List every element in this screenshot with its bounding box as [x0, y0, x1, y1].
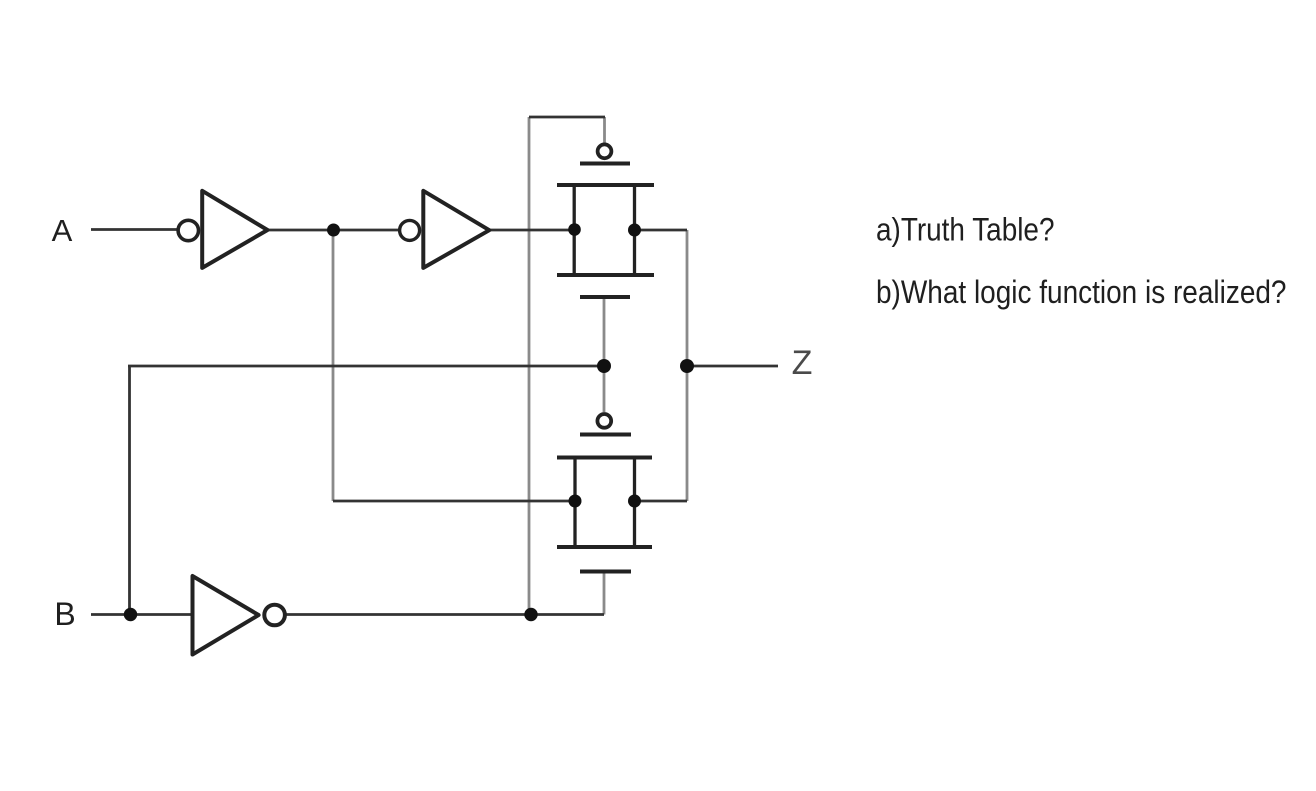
svg-text:B: B [54, 596, 75, 632]
svg-text:Z: Z [792, 344, 813, 382]
svg-text:A: A [52, 213, 73, 248]
svg-text:a)Truth Table?: a)Truth Table? [876, 212, 1055, 248]
svg-text:b)What logic function is reali: b)What logic function is realized? [876, 274, 1287, 310]
